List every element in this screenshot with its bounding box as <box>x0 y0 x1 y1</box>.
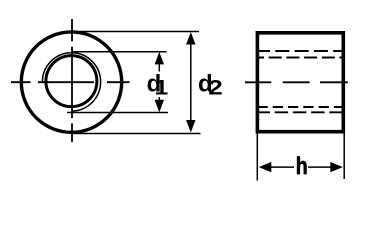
front view: thread major diameter thin arc (270deg, gap lower-left) <box>42 53 100 111</box>
dimension d1: bottom arrow <box>155 100 164 113</box>
dimension d1: top stem <box>158 62 160 72</box>
side view: hidden line bore bottom <box>257 106 343 108</box>
front view: outer circle d2 <box>21 32 121 132</box>
side view: hidden line bore top <box>256 57 343 59</box>
side view: cylinder body rectangle <box>257 33 343 132</box>
dimension h: right arrow <box>330 162 343 172</box>
dimension h: right line segment <box>308 166 333 168</box>
dimension d1: top extension line <box>72 51 167 53</box>
svg-text:1: 1 <box>155 75 169 99</box>
dimension d2: bottom arrow <box>186 120 195 133</box>
dimension d2: bottom extension line <box>72 133 201 135</box>
svg-text:2: 2 <box>208 75 222 99</box>
front view: vertical centerline <box>71 19 73 142</box>
side view: hidden line thread top <box>256 50 343 52</box>
dimension d1: bottom extension line <box>67 112 168 114</box>
dimension d1: bottom stem <box>158 97 160 102</box>
front view: bore circle <box>46 56 97 107</box>
side view: axis centerline <box>245 81 348 83</box>
dimension h: left line segment <box>269 166 294 168</box>
dimension d2: top arrow <box>186 32 195 45</box>
dimension h: left arrow <box>259 162 272 172</box>
dimension h: left extension line <box>256 133 258 180</box>
dimension h: right extension line <box>343 133 345 179</box>
dimension d2: top extension line <box>72 31 199 33</box>
front view: horizontal centerline <box>11 81 130 83</box>
side view: hidden line thread bottom <box>257 111 344 113</box>
dimension d1: top arrow <box>155 52 164 65</box>
dimension d2: dimension line <box>190 42 192 122</box>
svg-text:h: h <box>296 152 308 180</box>
